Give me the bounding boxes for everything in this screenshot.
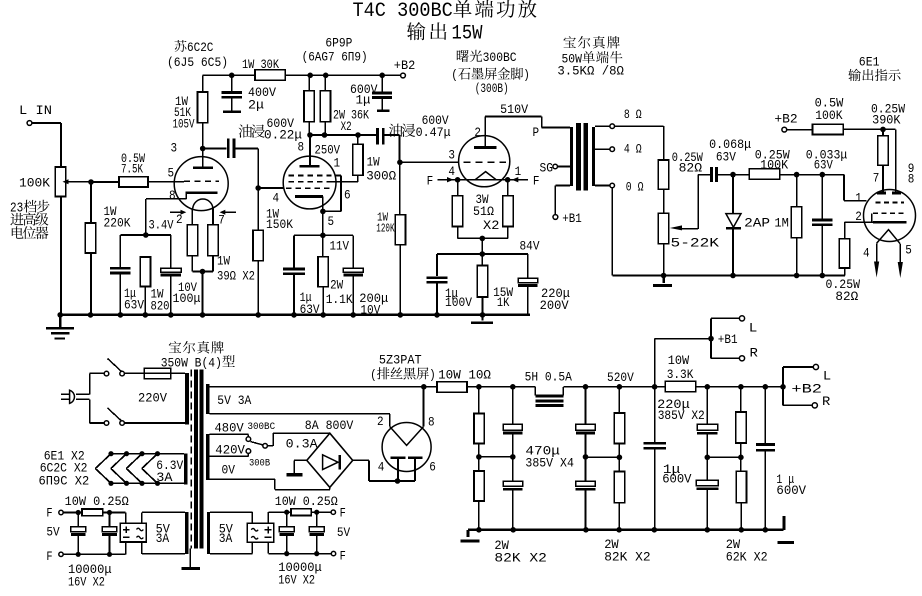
wire right winding top xyxy=(210,512,252,523)
fuse xyxy=(144,368,170,379)
wire 1M bottom xyxy=(796,238,798,276)
resistor 0.25ohm left xyxy=(82,509,103,516)
svg-text:8: 8 xyxy=(428,415,435,430)
junction 39ohm xyxy=(200,269,206,275)
heater chevron 2 xyxy=(111,454,127,484)
potentiometer 5-22K xyxy=(658,213,668,243)
wire input xyxy=(32,123,61,167)
svg-text:5Z3PAT: 5Z3PAT xyxy=(379,352,422,367)
wire 0.033u top xyxy=(821,175,823,219)
svg-text:10W 10Ω: 10W 10Ω xyxy=(438,368,491,383)
svg-text:2μ: 2μ xyxy=(248,98,264,113)
junction right cap1 top xyxy=(284,510,289,515)
wire 100u cap top xyxy=(170,235,172,268)
wire right cap2 xyxy=(316,512,318,527)
junction B+ 654 xyxy=(652,384,658,390)
junction heater bottom 4 xyxy=(155,481,160,486)
junction fb rail diode xyxy=(730,273,736,279)
wire 0.22u to grid node xyxy=(235,149,258,231)
wire fuse to primary xyxy=(171,372,185,374)
wire 220K bottom xyxy=(90,253,92,315)
svg-text:F: F xyxy=(533,173,540,188)
wire 4ohm tap xyxy=(595,148,610,150)
junction heater top 4 xyxy=(155,451,160,456)
V2 grid1 row xyxy=(286,187,332,189)
6E1 target bar right xyxy=(892,192,901,195)
junction rail 1u100 xyxy=(434,312,440,318)
wire 0.068u to diode node xyxy=(718,174,733,176)
svg-text:+B2: +B2 xyxy=(394,58,416,73)
pentode V2 envelope xyxy=(283,156,336,209)
capacitor 1u600V-1 xyxy=(643,443,666,448)
wire col654 down xyxy=(654,387,656,442)
plug prong top xyxy=(61,393,69,395)
svg-text:4 Ω: 4 Ω xyxy=(624,142,642,157)
resistor 51K xyxy=(198,92,208,123)
wire left cap1 bottom xyxy=(77,535,79,555)
wire col740 mid xyxy=(740,443,742,471)
wire +B2 L xyxy=(783,367,813,387)
wire 1u63V cap top xyxy=(119,235,121,267)
plug body xyxy=(70,390,75,403)
svg-text:5: 5 xyxy=(328,214,335,229)
wire heater top link xyxy=(111,453,158,455)
svg-text:220V: 220V xyxy=(138,390,167,405)
svg-text:): ) xyxy=(523,68,530,83)
5Z3 plate stems xyxy=(398,458,415,481)
resistor 1K 15W xyxy=(477,266,487,298)
title line 2 xyxy=(407,22,446,40)
label 宝尔真牌 PT xyxy=(169,341,224,354)
voltage selector lever xyxy=(251,442,263,445)
wire screen to 300ohm xyxy=(332,175,358,182)
wire 150K bottom xyxy=(257,261,259,315)
wire 51K bottom to plate xyxy=(202,123,204,167)
wire switch to primary bottom xyxy=(124,422,185,424)
resistor 82K-2a xyxy=(614,413,624,444)
capacitor 10000u R2 xyxy=(309,527,324,535)
junction psu rail 585 xyxy=(583,527,589,533)
svg-text:1: 1 xyxy=(515,164,522,179)
wire left block AC top xyxy=(142,512,185,523)
wire col478 mid xyxy=(478,444,480,472)
svg-text:0.22μ: 0.22μ xyxy=(264,127,302,142)
wire +B2 R xyxy=(783,387,812,406)
junction psu rail 741 xyxy=(739,527,745,533)
wire 220u200V bottom xyxy=(527,286,529,315)
V1 heater arrow left line xyxy=(170,211,181,213)
svg-text:5V: 5V xyxy=(46,525,59,540)
choke lead left xyxy=(534,387,536,396)
rect block right minus xyxy=(265,536,272,538)
label tube V1 name xyxy=(175,40,214,55)
switch common contact xyxy=(263,444,268,449)
wire 1u63V cap bottom xyxy=(119,274,121,315)
svg-text:63V: 63V xyxy=(814,157,833,172)
wire 1u63V-2 top xyxy=(293,235,295,267)
svg-text:7: 7 xyxy=(873,171,880,186)
svg-text:300B: 300B xyxy=(249,457,270,469)
svg-text:+B2: +B2 xyxy=(791,381,822,396)
terminal 8ohm xyxy=(610,124,615,129)
svg-text:8: 8 xyxy=(908,172,915,187)
junction heater top 3 xyxy=(139,451,144,456)
label 6П9C X2 xyxy=(39,474,90,488)
V1 cathode bar xyxy=(186,191,218,194)
svg-text:3A: 3A xyxy=(219,531,233,546)
junction V2 cathode pin6 xyxy=(320,209,326,215)
V3 filament line xyxy=(437,179,528,181)
svg-text:5: 5 xyxy=(168,166,175,181)
wire 0.033u bottom xyxy=(821,226,823,276)
svg-text:4: 4 xyxy=(448,164,455,179)
svg-text:4: 4 xyxy=(863,245,870,260)
capacitor 470u-1b xyxy=(503,481,523,489)
wire 5-22K wiper xyxy=(680,175,710,229)
svg-text:T4C 300BC: T4C 300BC xyxy=(353,0,453,23)
svg-text:480V: 480V xyxy=(215,420,244,435)
terminal B2 R xyxy=(812,403,817,408)
junction B+ 478 xyxy=(476,384,482,390)
resistor 39ohm right xyxy=(208,225,218,256)
label 曙光300BC xyxy=(457,50,517,65)
capacitor 10000u L2 xyxy=(102,527,117,535)
wire B2 to 100K xyxy=(787,129,813,131)
label 350W B4型 xyxy=(161,355,235,370)
svg-text:11V: 11V xyxy=(330,239,350,254)
svg-text:84V: 84V xyxy=(520,239,540,254)
V1 heater arrow right xyxy=(220,210,226,215)
svg-text:(6J5 6C5): (6J5 6C5) xyxy=(167,55,228,70)
pot 5-22K wiper arrow xyxy=(670,225,682,230)
wire diode top xyxy=(732,175,734,214)
terminal B1 L xyxy=(739,316,744,321)
PT core ground xyxy=(182,549,201,569)
terminal F left bottom xyxy=(59,552,63,556)
svg-text:6: 6 xyxy=(429,460,436,475)
resistor 0.25ohm right xyxy=(291,509,311,516)
junction V2 grid node xyxy=(255,185,261,191)
wire plate to 0.22u xyxy=(203,148,227,150)
junction rail 1u63 xyxy=(118,312,124,318)
wire 6.3V top xyxy=(158,453,185,455)
junction plate node V2 c xyxy=(355,132,361,138)
capacitor 200u 10V xyxy=(343,268,363,275)
wire left cap1 xyxy=(77,513,79,527)
wire col707 mid xyxy=(706,433,708,480)
wire 5V to 10ohm xyxy=(424,386,437,388)
junction plate node V2 b xyxy=(322,132,328,138)
6E1 grid row 1 xyxy=(876,202,904,204)
ground symbol 84V node xyxy=(471,315,493,323)
wire col765 top xyxy=(764,387,766,443)
resistor 7.5K xyxy=(119,177,148,187)
capacitor 0.068u xyxy=(712,167,717,182)
wire pin6 to cathode xyxy=(323,182,341,212)
svg-text:200V: 200V xyxy=(540,298,569,313)
wire V3 plate to OPT xyxy=(485,117,570,148)
choke bar 2 xyxy=(535,399,563,402)
wire col478 bottom xyxy=(478,501,480,530)
wire 120K top xyxy=(399,162,401,215)
terminal SG xyxy=(553,164,558,169)
svg-text:39Ω X2: 39Ω X2 xyxy=(217,269,255,284)
svg-text:4: 4 xyxy=(378,460,385,475)
OPT core bar 2 xyxy=(584,123,589,191)
junction rail 120K xyxy=(398,312,404,318)
svg-text:+B1: +B1 xyxy=(718,332,738,347)
wire col512 bottom xyxy=(512,489,514,530)
wire right target drop xyxy=(895,129,897,191)
junction rail 1K xyxy=(480,312,486,318)
junction +B1 xyxy=(708,336,714,342)
wire right cap2 bottom xyxy=(316,535,318,554)
wire 82ohm 6E1 bottom xyxy=(844,268,846,276)
PT core dashed xyxy=(190,370,192,549)
wire 0ohm down xyxy=(611,188,613,276)
resistor 820 xyxy=(140,257,150,287)
wire to switch bottom xyxy=(90,422,105,424)
wire 0.47u to V3 grid xyxy=(385,135,400,162)
label 油浸 2 xyxy=(389,124,415,137)
capacitor 10000u R1 xyxy=(279,527,294,535)
svg-text:2: 2 xyxy=(377,414,384,429)
svg-text:L: L xyxy=(749,321,758,336)
PT core bar 1 xyxy=(194,370,198,549)
wire 5V top run xyxy=(210,386,424,388)
wire diode to rail xyxy=(732,228,734,275)
wire 420V tap xyxy=(210,453,249,456)
svg-text:1: 1 xyxy=(855,190,862,205)
wire 11V node horizontal xyxy=(294,234,353,236)
svg-text:0.47μ: 0.47μ xyxy=(416,125,451,140)
label 输出指示 xyxy=(848,69,900,81)
rect block left tilde2 xyxy=(137,536,144,539)
svg-text:SG: SG xyxy=(540,160,554,175)
wire 478-512 link xyxy=(479,456,513,458)
resistor 82K-2b xyxy=(614,472,624,503)
svg-text:1M: 1M xyxy=(774,216,789,231)
capacitor 400V 2u xyxy=(222,93,242,98)
PT 5V winding right xyxy=(207,512,210,554)
wire right cap1 bottom xyxy=(286,535,288,554)
junction right cap2 bottom xyxy=(314,551,319,556)
svg-text:L: L xyxy=(823,369,831,384)
wire common to bridge xyxy=(267,433,329,446)
capacitor 0.47u oil xyxy=(378,128,384,144)
junction 5Z3 plates xyxy=(395,478,401,484)
wire 39ohm join xyxy=(192,256,213,272)
wire to switch top xyxy=(90,372,105,374)
wire 1u100V bottom xyxy=(436,284,438,316)
svg-text:1W: 1W xyxy=(217,254,230,269)
wire right to F top xyxy=(311,511,331,513)
choke bar 3 xyxy=(535,404,563,407)
wire plug to splits xyxy=(76,373,90,423)
wire bridge left to ground xyxy=(294,460,307,472)
capacitor 220u 200V xyxy=(518,278,538,285)
svg-text:300Ω: 300Ω xyxy=(366,169,396,184)
svg-text:420V: 420V xyxy=(215,442,245,457)
junction rail 1.1K xyxy=(320,312,326,318)
6E1 heater right xyxy=(899,244,901,263)
V1 filament arc xyxy=(193,199,213,208)
svg-text:63V: 63V xyxy=(716,149,736,164)
svg-text:820: 820 xyxy=(151,299,170,314)
label 油浸 1 xyxy=(239,124,265,137)
bridge diode xyxy=(323,455,338,470)
wire wiper node to 7.5K xyxy=(91,181,119,183)
B+ rail seg2 xyxy=(563,386,665,388)
wire switch to fuse xyxy=(124,372,144,374)
wire 0V tap xyxy=(210,479,330,489)
wire 36K tops xyxy=(309,75,325,90)
wire 600V cap lower stem xyxy=(381,99,383,110)
wire SG xyxy=(558,166,570,168)
B+ rail seg3 xyxy=(696,386,783,388)
wire pot to ground rail xyxy=(60,197,62,316)
wire left block AC bottom xyxy=(142,542,185,554)
wire 51ohm join xyxy=(458,227,508,239)
resistor 51ohm left xyxy=(452,196,462,227)
junction 390K top xyxy=(880,127,886,133)
terminal B2 L xyxy=(813,364,818,369)
wire col765 bottom xyxy=(764,452,766,530)
wire right winding bottom xyxy=(210,542,252,553)
svg-text:385V X4: 385V X4 xyxy=(525,455,574,470)
wire 100u cap bottom xyxy=(170,275,172,315)
svg-text:F: F xyxy=(46,505,52,520)
wire col512 mid xyxy=(512,433,514,481)
junction wiper node xyxy=(88,179,94,185)
terminal +B1 OPT xyxy=(553,215,558,220)
junction right cap2 top xyxy=(314,510,319,515)
svg-text:82Ω: 82Ω xyxy=(679,161,703,176)
resistor 36K left xyxy=(304,91,314,122)
wire bridge right to 5Z3 xyxy=(353,460,415,481)
resistor 39ohm left xyxy=(187,225,197,256)
svg-text:F: F xyxy=(427,173,434,188)
label 宝尔真牌 OPT xyxy=(564,36,620,49)
ground rail top half xyxy=(59,314,530,317)
pot wiper arrow xyxy=(63,179,69,184)
svg-text:300BC: 300BC xyxy=(248,421,276,433)
wire F left top xyxy=(63,512,82,514)
wire plate node to 0.47u xyxy=(375,135,377,136)
svg-text:7: 7 xyxy=(218,212,225,227)
V3 grid xyxy=(463,161,506,163)
6E1 heater arrow right xyxy=(898,262,903,278)
capacitor 0.033u xyxy=(812,220,833,225)
wire 820 bottom xyxy=(144,287,146,316)
junction B+ 512 xyxy=(510,384,516,390)
svg-text:F: F xyxy=(46,549,52,564)
svg-text:(6AG7 6П9): (6AG7 6П9) xyxy=(302,50,368,64)
svg-text:P: P xyxy=(533,125,540,140)
svg-text:4: 4 xyxy=(273,191,280,206)
wire +B1 riser xyxy=(655,339,709,387)
svg-text:+B1: +B1 xyxy=(562,211,582,226)
junction plate node V2 a xyxy=(307,132,313,138)
rectifier 5Z3P envelope xyxy=(382,423,431,472)
V3 heater arrow right xyxy=(512,177,519,182)
5Z3 filament vee xyxy=(390,427,424,446)
diode 2AP bar xyxy=(726,227,741,229)
svg-text:0V: 0V xyxy=(222,463,236,478)
wire to 100K fb xyxy=(733,174,749,176)
junction fb rail pot xyxy=(661,273,667,279)
6E1 bracket xyxy=(871,213,873,221)
junction 36K right top xyxy=(323,73,329,79)
capacitor 600V 1u xyxy=(372,93,392,98)
svg-text:100V: 100V xyxy=(445,295,472,310)
junction psu rail 619 xyxy=(616,527,622,533)
switch 480V contact xyxy=(246,437,251,442)
6E1 cathode vee xyxy=(877,230,901,244)
resistor 82K-1b xyxy=(474,471,484,501)
junction col585 mid xyxy=(583,454,589,460)
wire col512 top xyxy=(512,387,514,424)
wire col585 bottom xyxy=(585,489,587,530)
wire g2 link xyxy=(335,176,341,182)
switch 420V contact xyxy=(246,449,251,454)
svg-text:5-22K: 5-22K xyxy=(671,236,720,251)
label 排丝黑屏 xyxy=(370,367,436,382)
junction heater bottom 1 xyxy=(108,481,113,486)
svg-text:2: 2 xyxy=(176,212,183,227)
svg-text:16V X2: 16V X2 xyxy=(68,574,105,589)
svg-text:390K: 390K xyxy=(872,112,901,127)
svg-text:3: 3 xyxy=(171,141,178,156)
wire 5V bottom run xyxy=(210,414,390,427)
junction diode node xyxy=(730,172,736,178)
bridge rectifier xyxy=(307,433,353,487)
junction left cap2 top xyxy=(107,510,112,515)
svg-text:220K: 220K xyxy=(104,216,131,231)
ground symbol psu right xyxy=(777,516,794,542)
svg-text:0.3A: 0.3A xyxy=(286,436,318,451)
choke lead right xyxy=(562,387,564,396)
wire V1 cathode lead xyxy=(146,193,187,235)
wire cathode node horizontal xyxy=(120,234,170,236)
junction B+ 585 xyxy=(583,384,589,390)
wire 220u200V top xyxy=(527,254,529,278)
svg-text:(300B): (300B) xyxy=(475,81,509,96)
PT 5V winding left xyxy=(185,512,188,554)
junction left cap1 top xyxy=(76,510,81,515)
terminal 4ohm xyxy=(610,147,615,152)
resistor 62K-b xyxy=(736,471,746,503)
V1 grid xyxy=(184,180,219,182)
wire 1.1K top xyxy=(322,235,324,256)
wire fb to 6E1 grid xyxy=(780,175,867,201)
rect block left tilde1 xyxy=(137,528,144,531)
V3 plate bar xyxy=(474,146,496,149)
wire V2 cathode down xyxy=(322,197,324,236)
wire grid node to V2 xyxy=(258,187,283,189)
junction +B2 node xyxy=(780,384,786,390)
svg-text:600V: 600V xyxy=(662,472,691,487)
wire to 84V node xyxy=(481,238,483,254)
svg-text:0 Ω: 0 Ω xyxy=(626,180,644,195)
junction rail 1u63-2 xyxy=(291,312,297,318)
svg-text:100K: 100K xyxy=(815,108,843,123)
resistor 36K right xyxy=(320,91,330,122)
svg-text:10W 0.25Ω: 10W 0.25Ω xyxy=(65,494,129,509)
6E1 heater arrow left xyxy=(874,262,879,278)
svg-text:51Ω: 51Ω xyxy=(473,204,494,219)
label 石墨屏金脚 xyxy=(451,67,530,82)
